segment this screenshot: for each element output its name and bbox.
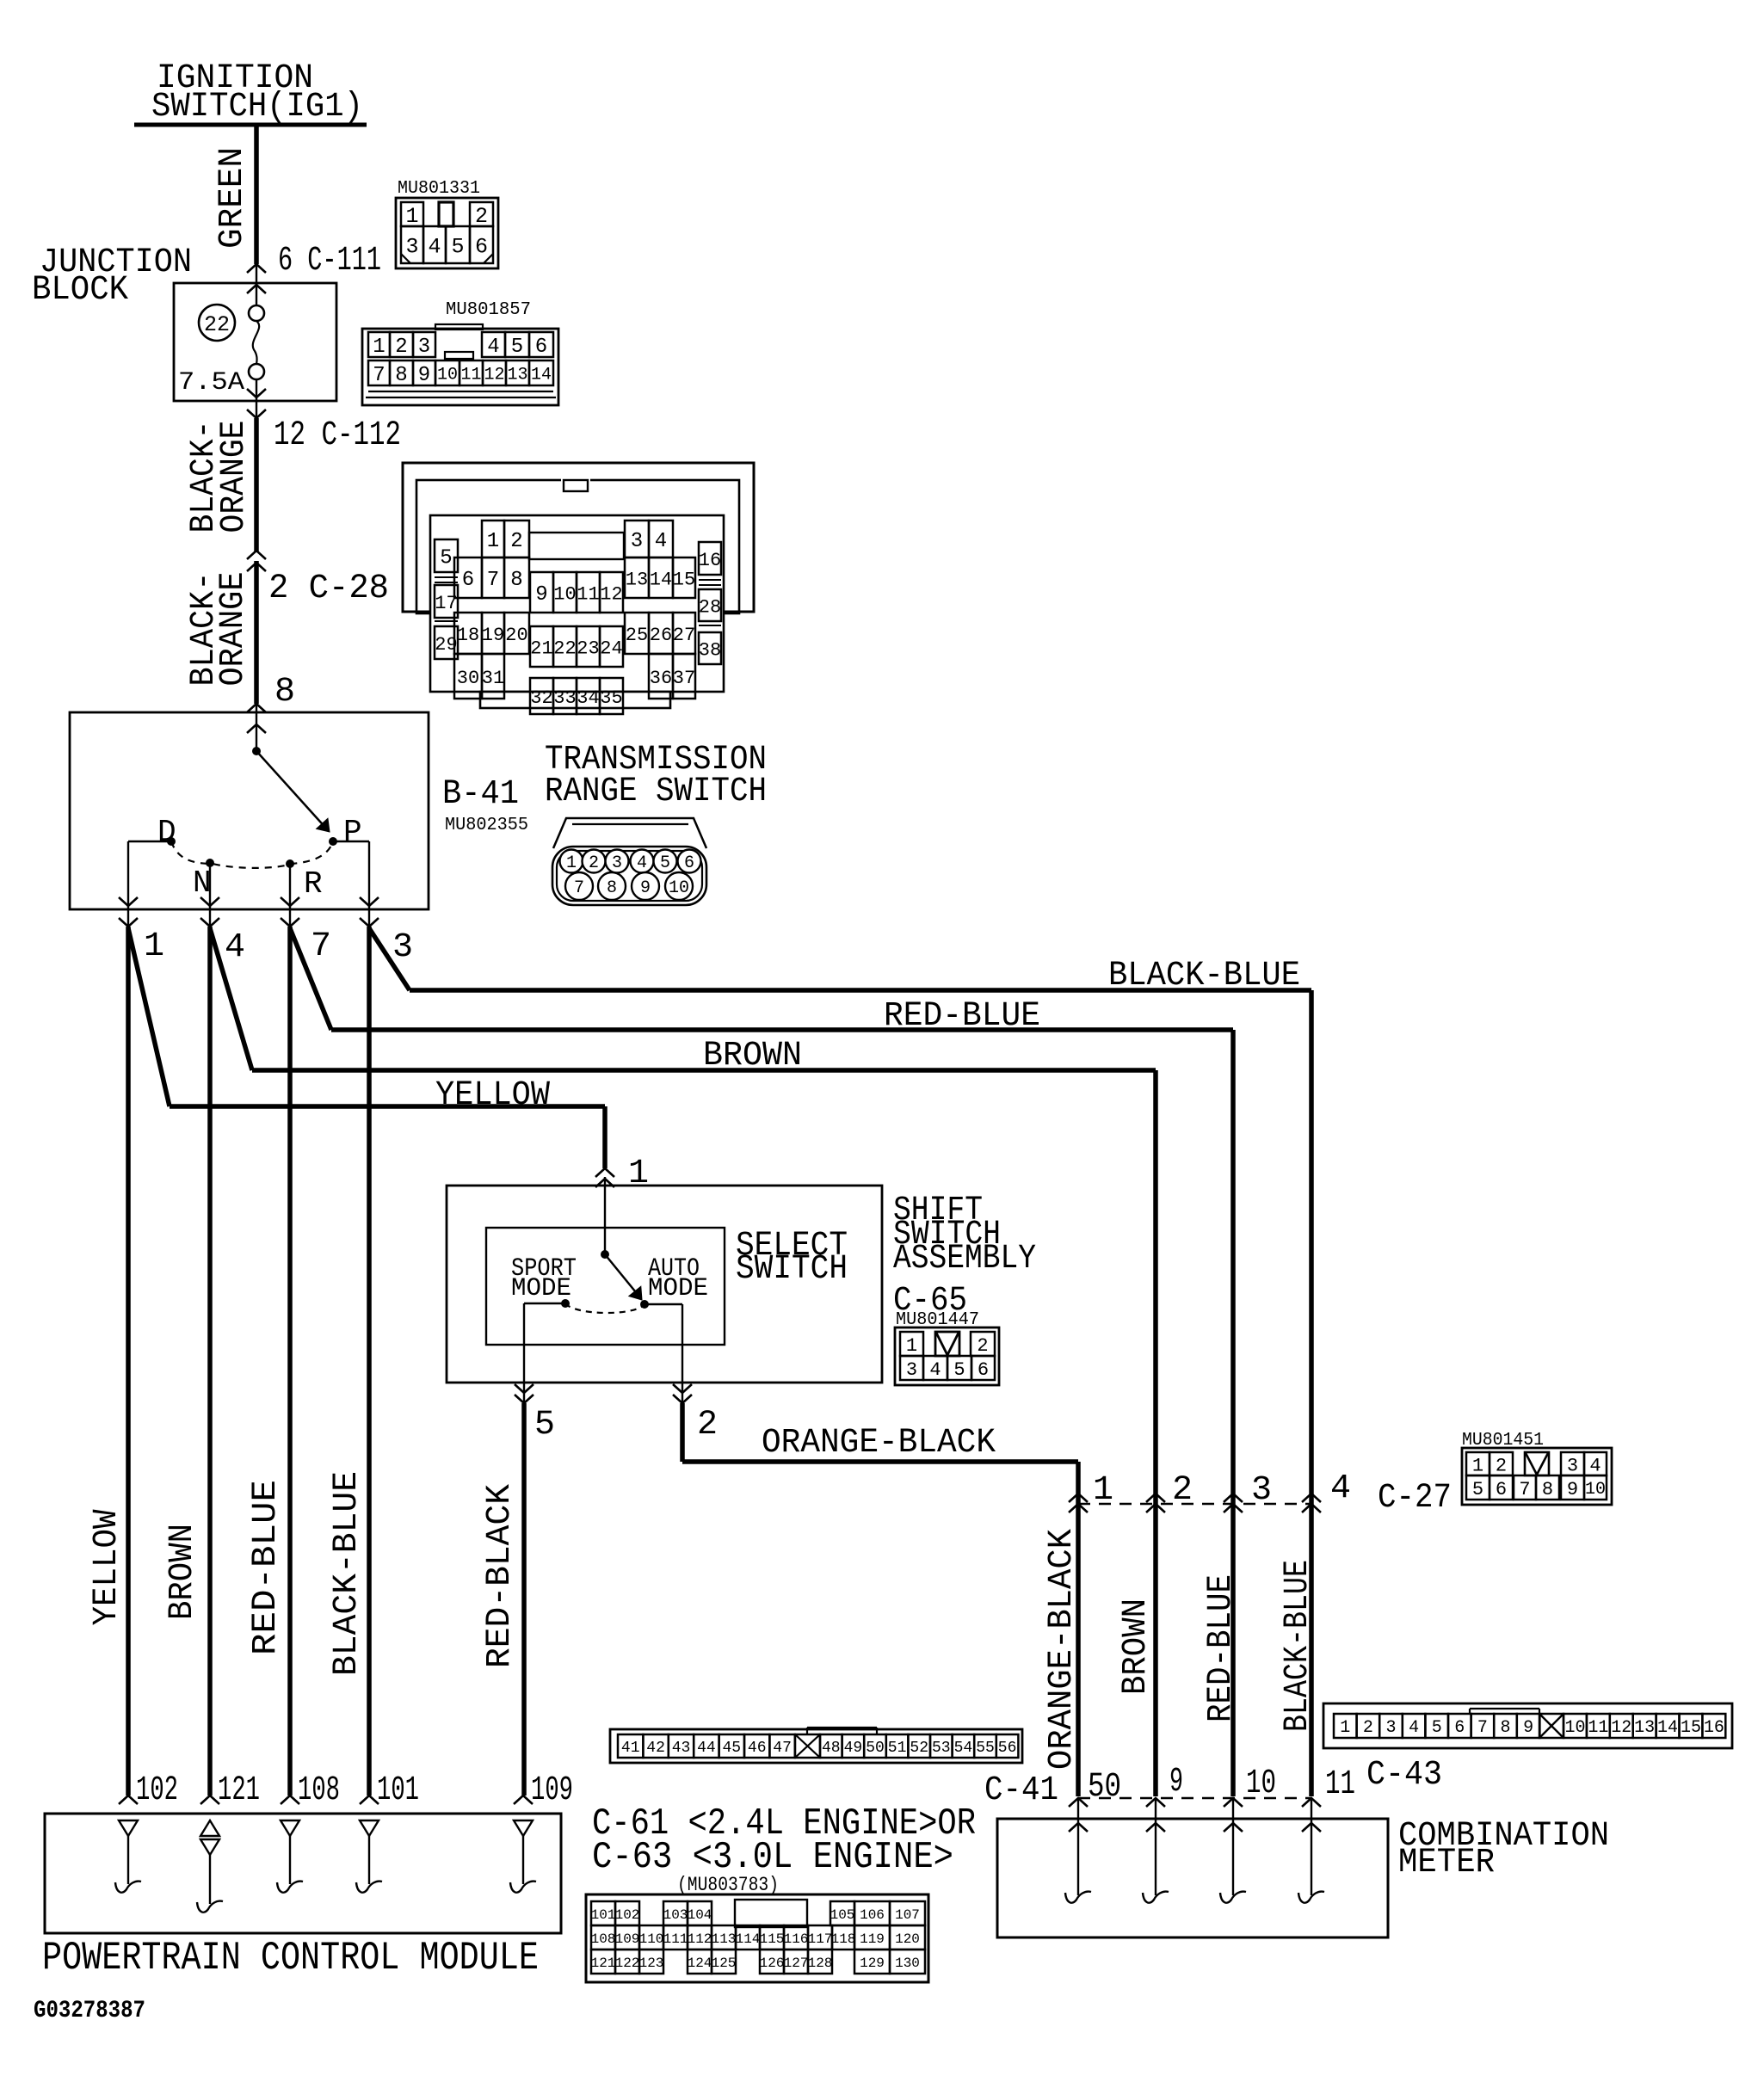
svg-text:P: P [343,815,362,850]
svg-text:6: 6 [462,569,474,592]
svg-text:6: 6 [978,1359,989,1381]
svg-text:5: 5 [953,1359,965,1381]
svg-text:8: 8 [274,673,295,711]
svg-text:5: 5 [534,1406,555,1444]
svg-text:ORANGE-BLACK: ORANGE-BLACK [762,1424,996,1463]
svg-text:121: 121 [218,1771,260,1810]
svg-text:46: 46 [748,1740,767,1757]
svg-text:13: 13 [507,366,527,385]
svg-text:8: 8 [1500,1718,1510,1738]
svg-text:129: 129 [860,1956,885,1971]
svg-text:12: 12 [484,366,504,385]
svg-text:7: 7 [487,569,499,592]
svg-text:1: 1 [1340,1718,1350,1738]
svg-text:120: 120 [895,1931,920,1947]
svg-text:110: 110 [639,1931,664,1947]
svg-text:ORANGE-BLACK: ORANGE-BLACK [1043,1529,1082,1770]
svg-text:28: 28 [699,596,721,618]
svg-text:55: 55 [976,1740,995,1757]
svg-text:21: 21 [530,638,552,659]
svg-text:BLACK-BLUE: BLACK-BLUE [1279,1560,1317,1732]
svg-text:48: 48 [822,1740,841,1757]
svg-text:1: 1 [144,927,164,966]
svg-text:15: 15 [673,569,695,590]
svg-text:4: 4 [428,235,441,260]
svg-text:3: 3 [612,853,622,873]
svg-text:4: 4 [487,336,499,359]
svg-text:7: 7 [574,878,584,898]
svg-text:33: 33 [553,687,576,709]
svg-text:5: 5 [440,547,452,570]
svg-text:YELLOW: YELLOW [435,1076,550,1115]
svg-text:RED-BLUE: RED-BLUE [884,997,1040,1036]
svg-text:22: 22 [553,638,576,659]
svg-text:4: 4 [1409,1718,1419,1738]
svg-text:10: 10 [1246,1765,1276,1803]
svg-text:108: 108 [591,1931,616,1947]
svg-text:BROWN: BROWN [163,1524,202,1620]
svg-text:104: 104 [688,1907,712,1923]
svg-text:101: 101 [377,1771,419,1810]
svg-text:43: 43 [672,1740,691,1757]
svg-text:6: 6 [535,336,547,359]
svg-text:105: 105 [830,1907,855,1923]
svg-text:19: 19 [482,625,504,646]
svg-text:45: 45 [722,1740,741,1757]
svg-text:2: 2 [510,530,522,553]
svg-text:YELLOW: YELLOW [88,1510,126,1626]
svg-text:18: 18 [457,625,479,646]
svg-text:114: 114 [736,1931,761,1947]
svg-text:GREEN: GREEN [213,147,252,249]
svg-text:MODE: MODE [511,1274,571,1303]
svg-text:7: 7 [1477,1718,1488,1738]
svg-text:115: 115 [760,1931,785,1947]
svg-text:14: 14 [650,569,672,590]
svg-text:1: 1 [487,530,499,553]
svg-text:117: 117 [808,1931,833,1947]
svg-text:10: 10 [553,583,576,605]
svg-text:3: 3 [1385,1718,1396,1738]
svg-text:9: 9 [1567,1479,1578,1500]
svg-text:109: 109 [531,1771,573,1810]
svg-text:9: 9 [640,878,651,898]
svg-text:27: 27 [673,625,695,646]
svg-text:1: 1 [373,336,385,359]
svg-text:4: 4 [655,530,667,553]
svg-text:47: 47 [773,1740,792,1757]
svg-text:4: 4 [1330,1469,1351,1508]
svg-text:1: 1 [405,204,418,229]
svg-text:121: 121 [591,1956,616,1971]
svg-text:31: 31 [482,668,504,689]
svg-text:3: 3 [392,928,413,967]
svg-text:BLOCK: BLOCK [32,271,128,310]
svg-text:56: 56 [998,1740,1017,1757]
svg-text:127: 127 [784,1956,809,1971]
svg-text:50: 50 [866,1740,885,1757]
svg-text:RED-BLACK: RED-BLACK [481,1484,520,1668]
svg-text:51: 51 [888,1740,907,1757]
svg-text:ORANGE: ORANGE [215,421,254,533]
svg-text:POWERTRAIN CONTROL MODULE: POWERTRAIN CONTROL MODULE [42,1936,539,1980]
svg-text:16: 16 [699,550,721,571]
svg-text:10: 10 [1564,1718,1585,1738]
svg-text:116: 116 [784,1931,809,1947]
svg-text:32: 32 [530,687,552,709]
svg-text:9: 9 [535,583,547,607]
svg-text:123: 123 [639,1956,664,1971]
svg-text:23: 23 [577,638,599,659]
svg-text:5: 5 [451,235,464,260]
svg-text:2: 2 [589,853,599,873]
svg-text:1: 1 [1093,1471,1113,1510]
svg-text:7.5A: 7.5A [178,368,244,397]
svg-text:130: 130 [895,1956,920,1971]
svg-text:MU801857: MU801857 [446,300,531,320]
svg-text:36: 36 [650,668,672,689]
svg-text:1: 1 [906,1335,917,1357]
svg-text:7: 7 [1519,1479,1530,1500]
svg-text:20: 20 [505,625,527,646]
svg-text:SWITCH: SWITCH [736,1250,848,1289]
svg-text:13: 13 [626,569,648,590]
svg-text:3: 3 [631,530,643,553]
svg-text:6: 6 [475,235,488,260]
svg-text:4: 4 [929,1359,941,1381]
svg-text:107: 107 [895,1907,920,1923]
svg-text:10: 10 [437,366,458,385]
svg-text:1: 1 [566,853,577,873]
svg-text:102: 102 [136,1771,178,1810]
svg-text:R: R [304,866,323,902]
svg-text:RED-BLUE: RED-BLUE [1202,1574,1241,1722]
svg-text:9: 9 [1523,1718,1533,1738]
svg-text:6: 6 [1454,1718,1465,1738]
svg-text:14: 14 [1657,1718,1678,1738]
svg-text:102: 102 [615,1907,640,1923]
svg-text:4: 4 [1589,1455,1601,1476]
svg-text:10: 10 [1585,1480,1606,1500]
svg-text:106: 106 [860,1907,885,1923]
svg-text:42: 42 [646,1740,665,1757]
svg-text:1: 1 [628,1155,649,1193]
svg-text:8: 8 [1542,1479,1553,1500]
svg-text:125: 125 [712,1956,737,1971]
svg-text:13: 13 [1634,1718,1655,1738]
svg-text:108: 108 [298,1771,340,1810]
svg-text:(MU803783): (MU803783) [677,1874,779,1896]
svg-text:G03278387: G03278387 [34,1998,145,2024]
svg-text:C-43: C-43 [1366,1756,1442,1795]
svg-text:24: 24 [600,638,622,659]
svg-text:SWITCH(IG1): SWITCH(IG1) [151,88,363,126]
svg-text:MU801331: MU801331 [398,179,480,199]
svg-text:101: 101 [591,1907,616,1923]
svg-text:BLACK-BLUE: BLACK-BLUE [1108,957,1300,995]
svg-text:12: 12 [600,583,622,605]
svg-text:14: 14 [531,366,552,385]
svg-text:6 C-111: 6 C-111 [278,242,381,280]
svg-text:50: 50 [1088,1768,1121,1807]
svg-text:25: 25 [626,625,648,646]
svg-text:12 C-112: 12 C-112 [274,416,401,455]
svg-text:2: 2 [977,1335,988,1357]
svg-text:22: 22 [204,312,230,337]
svg-text:2: 2 [475,204,488,229]
svg-text:C-41: C-41 [984,1771,1058,1810]
svg-text:ASSEMBLY: ASSEMBLY [893,1240,1036,1278]
svg-text:111: 111 [663,1931,688,1947]
svg-text:35: 35 [600,687,622,709]
svg-text:N: N [193,865,212,901]
svg-text:112: 112 [688,1931,712,1947]
svg-text:15: 15 [1681,1718,1701,1738]
svg-text:26: 26 [650,625,672,646]
svg-text:ORANGE: ORANGE [214,572,253,687]
svg-text:RED-BLUE: RED-BLUE [247,1480,286,1655]
svg-text:4: 4 [225,928,245,967]
svg-text:49: 49 [844,1740,863,1757]
svg-text:BROWN: BROWN [703,1037,802,1075]
svg-text:7: 7 [373,364,385,387]
svg-text:BLACK-BLUE: BLACK-BLUE [328,1471,367,1676]
svg-text:2: 2 [697,1406,718,1444]
svg-text:8: 8 [607,878,617,898]
svg-text:MODE: MODE [648,1274,708,1303]
svg-text:2: 2 [395,336,407,359]
svg-text:8: 8 [510,569,522,592]
svg-text:109: 109 [615,1931,640,1947]
svg-text:11: 11 [1588,1718,1608,1738]
svg-text:C-27: C-27 [1378,1479,1452,1518]
svg-text:126: 126 [760,1956,785,1971]
svg-text:37: 37 [673,668,695,689]
svg-text:C-63 <3.0L ENGINE>: C-63 <3.0L ENGINE> [592,1836,953,1879]
svg-text:34: 34 [577,687,599,709]
svg-text:2: 2 [1363,1718,1373,1738]
svg-text:2 C-28: 2 C-28 [268,570,389,608]
svg-text:6: 6 [1496,1479,1507,1500]
svg-text:53: 53 [932,1740,951,1757]
svg-text:11: 11 [460,366,481,385]
svg-text:5: 5 [1432,1718,1442,1738]
svg-text:METER: METER [1398,1844,1495,1882]
svg-text:118: 118 [831,1931,856,1947]
svg-text:4: 4 [637,853,647,873]
svg-text:113: 113 [712,1931,737,1947]
svg-text:8: 8 [395,364,407,387]
svg-text:3: 3 [405,235,418,260]
svg-text:11: 11 [577,583,599,605]
svg-text:52: 52 [910,1740,928,1757]
svg-text:3: 3 [418,336,430,359]
svg-text:41: 41 [621,1740,640,1757]
svg-text:128: 128 [808,1956,833,1971]
svg-text:3: 3 [1251,1471,1272,1510]
svg-text:119: 119 [860,1931,885,1947]
svg-text:103: 103 [663,1907,688,1923]
svg-text:12: 12 [1611,1718,1631,1738]
svg-text:2: 2 [1496,1455,1507,1476]
svg-text:B-41: B-41 [442,775,519,814]
svg-text:1: 1 [1472,1455,1483,1476]
svg-text:122: 122 [615,1956,640,1971]
svg-text:9: 9 [1169,1763,1183,1802]
svg-text:2: 2 [1172,1471,1193,1510]
svg-text:54: 54 [954,1740,973,1757]
svg-text:RANGE SWITCH: RANGE SWITCH [545,773,767,811]
svg-text:5: 5 [511,336,523,359]
svg-text:5: 5 [660,853,670,873]
svg-text:5: 5 [1472,1479,1483,1500]
svg-text:38: 38 [699,639,721,661]
svg-text:44: 44 [697,1740,716,1757]
svg-text:7: 7 [311,927,331,966]
svg-text:MU802355: MU802355 [445,816,528,835]
svg-text:30: 30 [457,668,479,689]
svg-text:124: 124 [688,1956,712,1971]
svg-text:16: 16 [1704,1718,1724,1738]
svg-text:11: 11 [1325,1765,1355,1804]
svg-text:BROWN: BROWN [1117,1598,1156,1695]
svg-text:3: 3 [1567,1455,1578,1476]
svg-text:3: 3 [906,1359,917,1381]
svg-text:10: 10 [669,878,689,898]
svg-text:6: 6 [684,853,694,873]
svg-text:9: 9 [418,364,430,387]
